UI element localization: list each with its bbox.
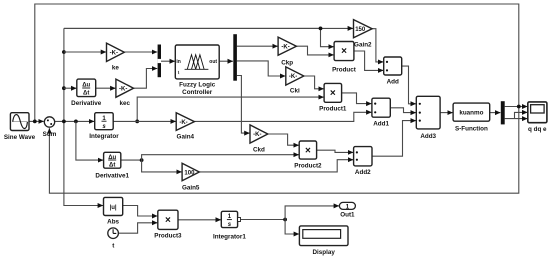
block Product2 bbox=[294, 141, 322, 170]
block Scope q dq e bbox=[528, 102, 547, 133]
svg-text:×: × bbox=[165, 215, 171, 226]
wire Sum output to Integrator bbox=[55, 120, 94, 122]
block Derivative bbox=[71, 79, 102, 107]
wire integrator junction up to Product1 in2 bbox=[137, 97, 324, 121]
wire Ckd to Product2 in1 bbox=[268, 134, 299, 145]
node junction error/ke bbox=[62, 50, 66, 54]
svg-text:|u|: |u| bbox=[110, 205, 117, 211]
block Clock bbox=[108, 228, 119, 250]
svg-text:Cki: Cki bbox=[290, 88, 300, 95]
svg-text:-K-: -K- bbox=[179, 120, 187, 126]
wire demux out3 to Ckd bbox=[237, 76, 250, 134]
block Product1 bbox=[319, 83, 347, 112]
svg-text:Gain2: Gain2 bbox=[354, 42, 372, 49]
wire demux2 out2 to scope in3 bbox=[505, 118, 528, 120]
block Display bbox=[299, 226, 348, 256]
block Derivative1 bbox=[95, 152, 129, 179]
wire Gain5 to Add2 in2 bbox=[199, 160, 353, 172]
wire to Derivative bbox=[64, 87, 77, 89]
svg-text:Δt: Δt bbox=[83, 91, 89, 97]
svg-text:Sum: Sum bbox=[43, 131, 57, 138]
svg-text:-K-: -K- bbox=[289, 74, 297, 80]
svg-text:-K-: -K- bbox=[281, 44, 289, 50]
wire Add1 out to Add3 in2 bbox=[390, 108, 416, 113]
svg-text:Ckd: Ckd bbox=[253, 147, 265, 154]
wire outer loop from Sine Wave junction up over top and down right side to feedback bottom into Sum bbox=[35, 4, 519, 193]
block Sine Wave bbox=[4, 113, 36, 141]
svg-text:ke: ke bbox=[112, 65, 120, 72]
node junction derivative1 branch bbox=[74, 120, 78, 124]
svg-text:Gain4: Gain4 bbox=[177, 134, 195, 141]
svg-text:q dq e: q dq e bbox=[528, 126, 547, 133]
gain Ckp bbox=[278, 37, 296, 66]
wire Product1 out to Add1 in1 bbox=[342, 93, 372, 104]
svg-text:Ckp: Ckp bbox=[281, 60, 293, 67]
node junction top row bbox=[319, 27, 323, 31]
mux Mux bbox=[158, 45, 161, 78]
mux demux2 bbox=[501, 101, 505, 124]
wire Product out to Add in2 bbox=[354, 51, 383, 70]
wire Add2 out to Add3 in3 bbox=[372, 121, 416, 157]
demux Demux bbox=[233, 34, 237, 80]
gain Ckd bbox=[250, 125, 268, 154]
node junction error/derivative bbox=[62, 86, 66, 90]
wire Derivative to kec bbox=[96, 87, 116, 89]
wire Product2 out to Add2 in1 bbox=[317, 150, 354, 152]
wire Derivative1 out split bbox=[121, 159, 142, 161]
node junction error on sum row bbox=[62, 120, 66, 124]
block Integrator bbox=[89, 113, 119, 140]
svg-text:S-Function: S-Function bbox=[455, 125, 488, 132]
svg-text:150: 150 bbox=[355, 27, 366, 33]
wire Clock out to Product3 in2 bbox=[118, 223, 157, 233]
svg-text:Product3: Product3 bbox=[154, 233, 182, 240]
node junction sine output bbox=[33, 120, 37, 124]
wire to ke bbox=[64, 51, 106, 53]
block Product bbox=[332, 42, 357, 74]
svg-text:Abs: Abs bbox=[107, 219, 119, 226]
wire branch down to Gain5 bbox=[142, 160, 182, 172]
wire jog to scope in2 bbox=[515, 112, 528, 118]
svg-text:Add: Add bbox=[387, 79, 399, 86]
svg-text:-K-: -K- bbox=[119, 86, 127, 92]
svg-text:Integrator: Integrator bbox=[89, 133, 119, 140]
svg-text:×: × bbox=[330, 88, 336, 99]
node junction derivative1 out bbox=[140, 158, 144, 162]
svg-text:Add3: Add3 bbox=[420, 133, 436, 140]
svg-text:out: out bbox=[209, 59, 217, 65]
block Add bbox=[384, 57, 402, 86]
wire Integrator out to Gain4 bbox=[113, 120, 176, 122]
block Integrator1 bbox=[213, 211, 246, 240]
block S-Function kuanmo bbox=[453, 103, 490, 132]
block Add3 bbox=[416, 96, 440, 140]
wire top row junction down to Product in1 bbox=[321, 28, 334, 46]
svg-text:Add2: Add2 bbox=[355, 169, 371, 176]
block Add2 bbox=[354, 147, 372, 176]
gain Gain2 bbox=[354, 20, 373, 49]
svg-text:Derivative: Derivative bbox=[71, 100, 102, 107]
wire error vertical trunk with corner to Gain2 at top and Abs at bottom bbox=[64, 28, 103, 205]
svg-text:Δt: Δt bbox=[109, 162, 115, 168]
block Add1 bbox=[372, 98, 390, 127]
node junction feedback tap bbox=[517, 105, 521, 109]
svg-text:Fuzzy Logic: Fuzzy Logic bbox=[179, 82, 216, 89]
wire demux out1 to Ckp bbox=[237, 45, 278, 47]
svg-text:Display: Display bbox=[312, 249, 335, 256]
wire Ckp to Product in2 bbox=[296, 46, 333, 55]
wire Add out to Add3 in1 bbox=[402, 66, 416, 104]
wire Gain2 out down to Add in1 bbox=[372, 29, 383, 62]
svg-text:-K-: -K- bbox=[110, 50, 118, 56]
svg-text:×: × bbox=[305, 146, 311, 157]
gain Cki bbox=[286, 67, 304, 95]
wire ke to mux bbox=[124, 51, 157, 53]
wire kec to mux in2 bbox=[134, 69, 158, 89]
gain kec bbox=[116, 79, 134, 107]
block Out1 bbox=[339, 202, 355, 218]
gain ke bbox=[107, 43, 125, 71]
wire Gain4 out to Add1 in2 bbox=[194, 112, 371, 121]
wire Sine Wave to Sum bbox=[29, 120, 44, 122]
wire Add3 out to S-Function bbox=[440, 112, 453, 114]
wire Cki to Product1 in1 bbox=[304, 76, 324, 89]
svg-text:Derivative1: Derivative1 bbox=[95, 173, 129, 180]
svg-text:Controller: Controller bbox=[182, 89, 213, 96]
wire junction down to Derivative1 bbox=[76, 121, 103, 160]
wire branch up to Product2 in2 bbox=[142, 155, 299, 160]
svg-text:Sine Wave: Sine Wave bbox=[4, 134, 36, 141]
svg-text:Integrator1: Integrator1 bbox=[213, 234, 246, 241]
svg-text:-K-: -K- bbox=[253, 132, 261, 138]
wire branch down to Display bbox=[285, 220, 299, 235]
svg-text:kec: kec bbox=[119, 100, 130, 107]
svg-text:in: in bbox=[176, 59, 180, 65]
node junction integrator1 out bbox=[283, 218, 287, 222]
wire Integrator1 out junction bbox=[241, 219, 286, 221]
block Fuzzy Logic Controller bbox=[175, 45, 219, 96]
svg-text:Product2: Product2 bbox=[294, 163, 322, 170]
wire demux out2 to Cki bbox=[237, 61, 286, 76]
wire S-Function out to demux2 bbox=[490, 112, 501, 114]
wire mux to FLC bbox=[161, 60, 175, 62]
gain Gain4 bbox=[176, 113, 194, 141]
gain Gain5 bbox=[182, 163, 200, 191]
wire Abs out to Product3 in1 bbox=[123, 206, 158, 217]
block Abs bbox=[104, 197, 123, 225]
node junction integrator out bbox=[135, 120, 139, 124]
svg-text:Gain5: Gain5 bbox=[182, 185, 200, 192]
wire branch up to Out1 bbox=[285, 206, 339, 220]
svg-text:Add1: Add1 bbox=[373, 121, 389, 128]
wire Product3 out to Integrator1 bbox=[178, 219, 221, 221]
block Product3 bbox=[154, 210, 182, 239]
wire FLC to demux bbox=[219, 60, 233, 62]
svg-text:kuanmo: kuanmo bbox=[459, 110, 483, 117]
svg-text:×: × bbox=[341, 46, 347, 57]
wire demux2 out1 to scope in1 bbox=[505, 106, 528, 108]
svg-text:Out1: Out1 bbox=[340, 212, 355, 219]
svg-text:Product1: Product1 bbox=[319, 106, 347, 113]
svg-text:100: 100 bbox=[184, 170, 195, 176]
block Sum bbox=[43, 117, 57, 138]
svg-text:Product: Product bbox=[332, 67, 357, 74]
